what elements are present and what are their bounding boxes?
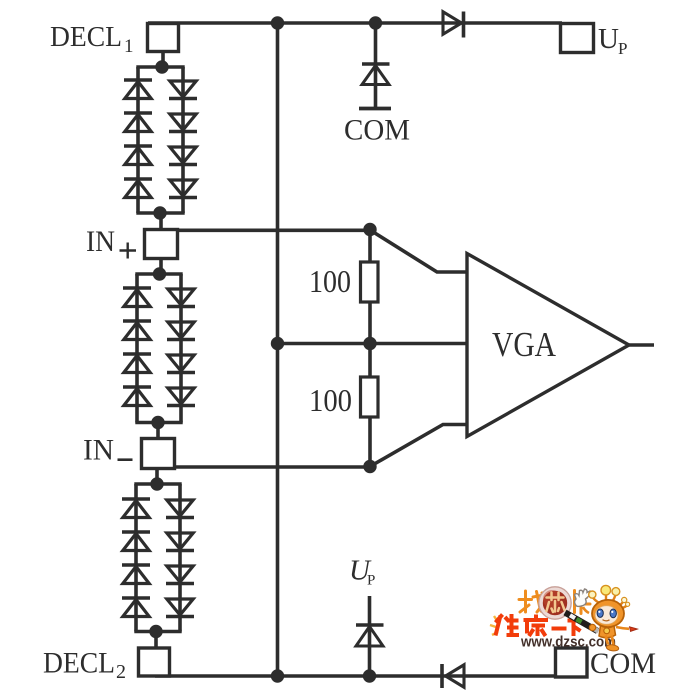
diode D5 on top rail — [443, 12, 462, 34]
diode DC-L3 (cathode up) — [122, 563, 150, 567]
wire: R1 bottom stub — [368, 301, 372, 345]
svg-text:COM: COM — [590, 647, 656, 680]
node: R1 / R2 middle — [363, 337, 376, 350]
wire: DB top stub — [159, 258, 163, 276]
node: IN+ / chain DB — [153, 267, 166, 280]
diode DA-R2 (cathode down) — [170, 114, 196, 130]
diode DC-R2 (cathode down) — [167, 533, 193, 549]
wire: DA top stub — [161, 52, 165, 69]
wire: DB top jog — [135, 272, 182, 276]
svg-text:100: 100 — [309, 382, 352, 418]
resistor R2 100 ohm body — [361, 377, 379, 417]
diode DB-L2 (cathode up) — [123, 319, 151, 323]
terminal UP box (top right) — [561, 24, 594, 53]
node: COM branch / top rail — [369, 16, 382, 29]
terminal DECL1 box — [148, 24, 179, 52]
diode DA-R4 (cathode down) — [170, 180, 196, 196]
diode DA-L2 (cathode up) — [124, 111, 152, 115]
svg-text:DECL: DECL — [50, 21, 122, 53]
watermark mascot glove hand — [575, 589, 591, 606]
watermark mascot head — [592, 600, 624, 627]
wire: R2 top stub — [368, 343, 372, 378]
svg-text:COM: COM — [344, 114, 410, 147]
node: chain DB / IN- — [151, 416, 164, 429]
wire: DB left branch — [135, 274, 139, 423]
diode DB-R2 (cathode down) — [168, 322, 194, 338]
watermark char pian (chip) — [575, 591, 591, 614]
diode DB-R3 (cathode down) — [168, 355, 194, 371]
terminal DECL2 box — [139, 648, 170, 676]
node: IN+ line / R1 — [363, 223, 376, 236]
node: UP branch / bottom rail — [363, 669, 376, 682]
node: IN- / chain DC — [150, 477, 163, 490]
node: bus / top rail — [271, 16, 284, 29]
watermark magnifier ring — [541, 589, 569, 617]
watermark xin glyph inside magnifier — [547, 593, 565, 613]
node: DECL1 / chain DA — [155, 60, 168, 73]
diode DB-L3 (cathode up) — [123, 352, 151, 356]
wire: DB bottom stub — [156, 421, 160, 439]
wire: DC left branch — [134, 484, 138, 632]
watermark mascot eyes — [597, 609, 603, 617]
watermark mascot arm from glove — [583, 607, 589, 613]
diode DC-R4 (cathode down) — [167, 599, 193, 615]
wire: DA bottom jog — [136, 211, 184, 215]
svg-text:DECL: DECL — [43, 647, 115, 680]
svg-text:U: U — [598, 23, 619, 55]
svg-text:100: 100 — [309, 263, 351, 299]
watermark mascot right arm — [616, 627, 629, 629]
diode DB-R4 (cathode down) — [168, 388, 194, 404]
node: bus / middle line — [271, 337, 284, 350]
terminal COM box (bottom right) — [556, 648, 588, 677]
wire: DC right branch — [178, 484, 182, 632]
wire: DA bottom stub — [159, 212, 163, 231]
wire: bottom UP branch — [368, 596, 372, 676]
diode DB-R1 (cathode down) — [168, 289, 194, 305]
diode DC-R1 (cathode down) — [167, 500, 193, 516]
diode DC-L1 (cathode up) — [122, 497, 150, 501]
wire: DB right branch — [179, 274, 183, 423]
wire: bottom rail — [155, 674, 557, 678]
wire: IN+ output line — [160, 229, 372, 233]
watermark mascot left hand on handle — [589, 624, 595, 630]
wire: middle gain-set line — [278, 342, 469, 346]
terminal IN- box — [142, 439, 175, 469]
diode DC-R3 (cathode down) — [167, 566, 193, 582]
wire: VGA output — [628, 343, 654, 347]
svg-text:IN: IN — [83, 434, 114, 467]
node: chain DA / IN+ — [153, 206, 166, 219]
node: bus / bottom rail — [271, 669, 284, 682]
svg-text:P: P — [618, 39, 627, 58]
diode DA-L4 (cathode up) — [124, 177, 152, 181]
svg-text:IN: IN — [86, 225, 115, 258]
wire: vertical bus — [276, 21, 280, 677]
wire: top supply rail — [148, 21, 562, 25]
watermark text weiku-yixia (red) — [496, 614, 582, 636]
watermark sparkle left — [490, 616, 498, 635]
op-amp U1 VGA triangle — [467, 254, 629, 437]
wire: R1 top stub — [368, 228, 372, 263]
svg-text:2: 2 — [116, 661, 126, 683]
node: chain DC / DECL2 — [149, 625, 162, 638]
wire: diagonal from IN+ node to VGA top input — [370, 230, 468, 272]
watermark logo group (dzsc.com) — [490, 585, 638, 651]
diode D7 bottom UP clamp — [356, 623, 384, 627]
diode DA-R3 (cathode down) — [170, 147, 196, 163]
wire: IN- output line — [157, 465, 372, 469]
node: IN- line / R2 — [363, 460, 376, 473]
diode DC-L2 (cathode up) — [122, 530, 150, 534]
watermark magnifier handle — [565, 613, 599, 632]
diode D6 top COM clamp — [362, 62, 390, 66]
resistor R1 100 ohm body — [361, 262, 379, 302]
wire: R2 bottom stub — [368, 417, 372, 469]
svg-text:1: 1 — [124, 36, 134, 57]
diode DA-R1 (cathode down) — [170, 81, 196, 97]
diode DB-L1 (cathode up) — [123, 286, 151, 290]
watermark char zhao (find) — [519, 591, 545, 612]
wire: top COM branch — [374, 23, 378, 108]
watermark mascot legs and shoe — [606, 636, 614, 646]
wire: DC top jog — [134, 482, 181, 486]
wire: diagonal from IN- node to VGA bottom input — [370, 425, 468, 467]
terminal IN+ box — [145, 230, 178, 259]
wire: DA left branch — [136, 67, 140, 213]
wire: DC bottom stub — [154, 630, 158, 649]
watermark mascot body — [599, 626, 616, 638]
svg-text:P: P — [367, 573, 375, 589]
terminal bar: top COM terminal — [359, 107, 391, 111]
wire: DB bottom jog — [135, 421, 182, 425]
diode DC-L4 (cathode up) — [122, 596, 150, 600]
wire: DA top jog — [136, 65, 184, 69]
watermark mascot antenna stalks — [593, 594, 627, 609]
wire: DC top stub — [155, 468, 159, 486]
diode DB-L4 (cathode up) — [123, 385, 151, 389]
watermark mascot antenna balls — [589, 591, 596, 598]
diode DA-L1 (cathode up) — [124, 78, 152, 82]
wire: DA right branch — [181, 67, 185, 213]
diode D8 on bottom rail — [440, 664, 444, 688]
wire: DC bottom jog — [134, 630, 181, 634]
svg-text:VGA: VGA — [492, 325, 557, 364]
diode DA-L3 (cathode up) — [124, 144, 152, 148]
